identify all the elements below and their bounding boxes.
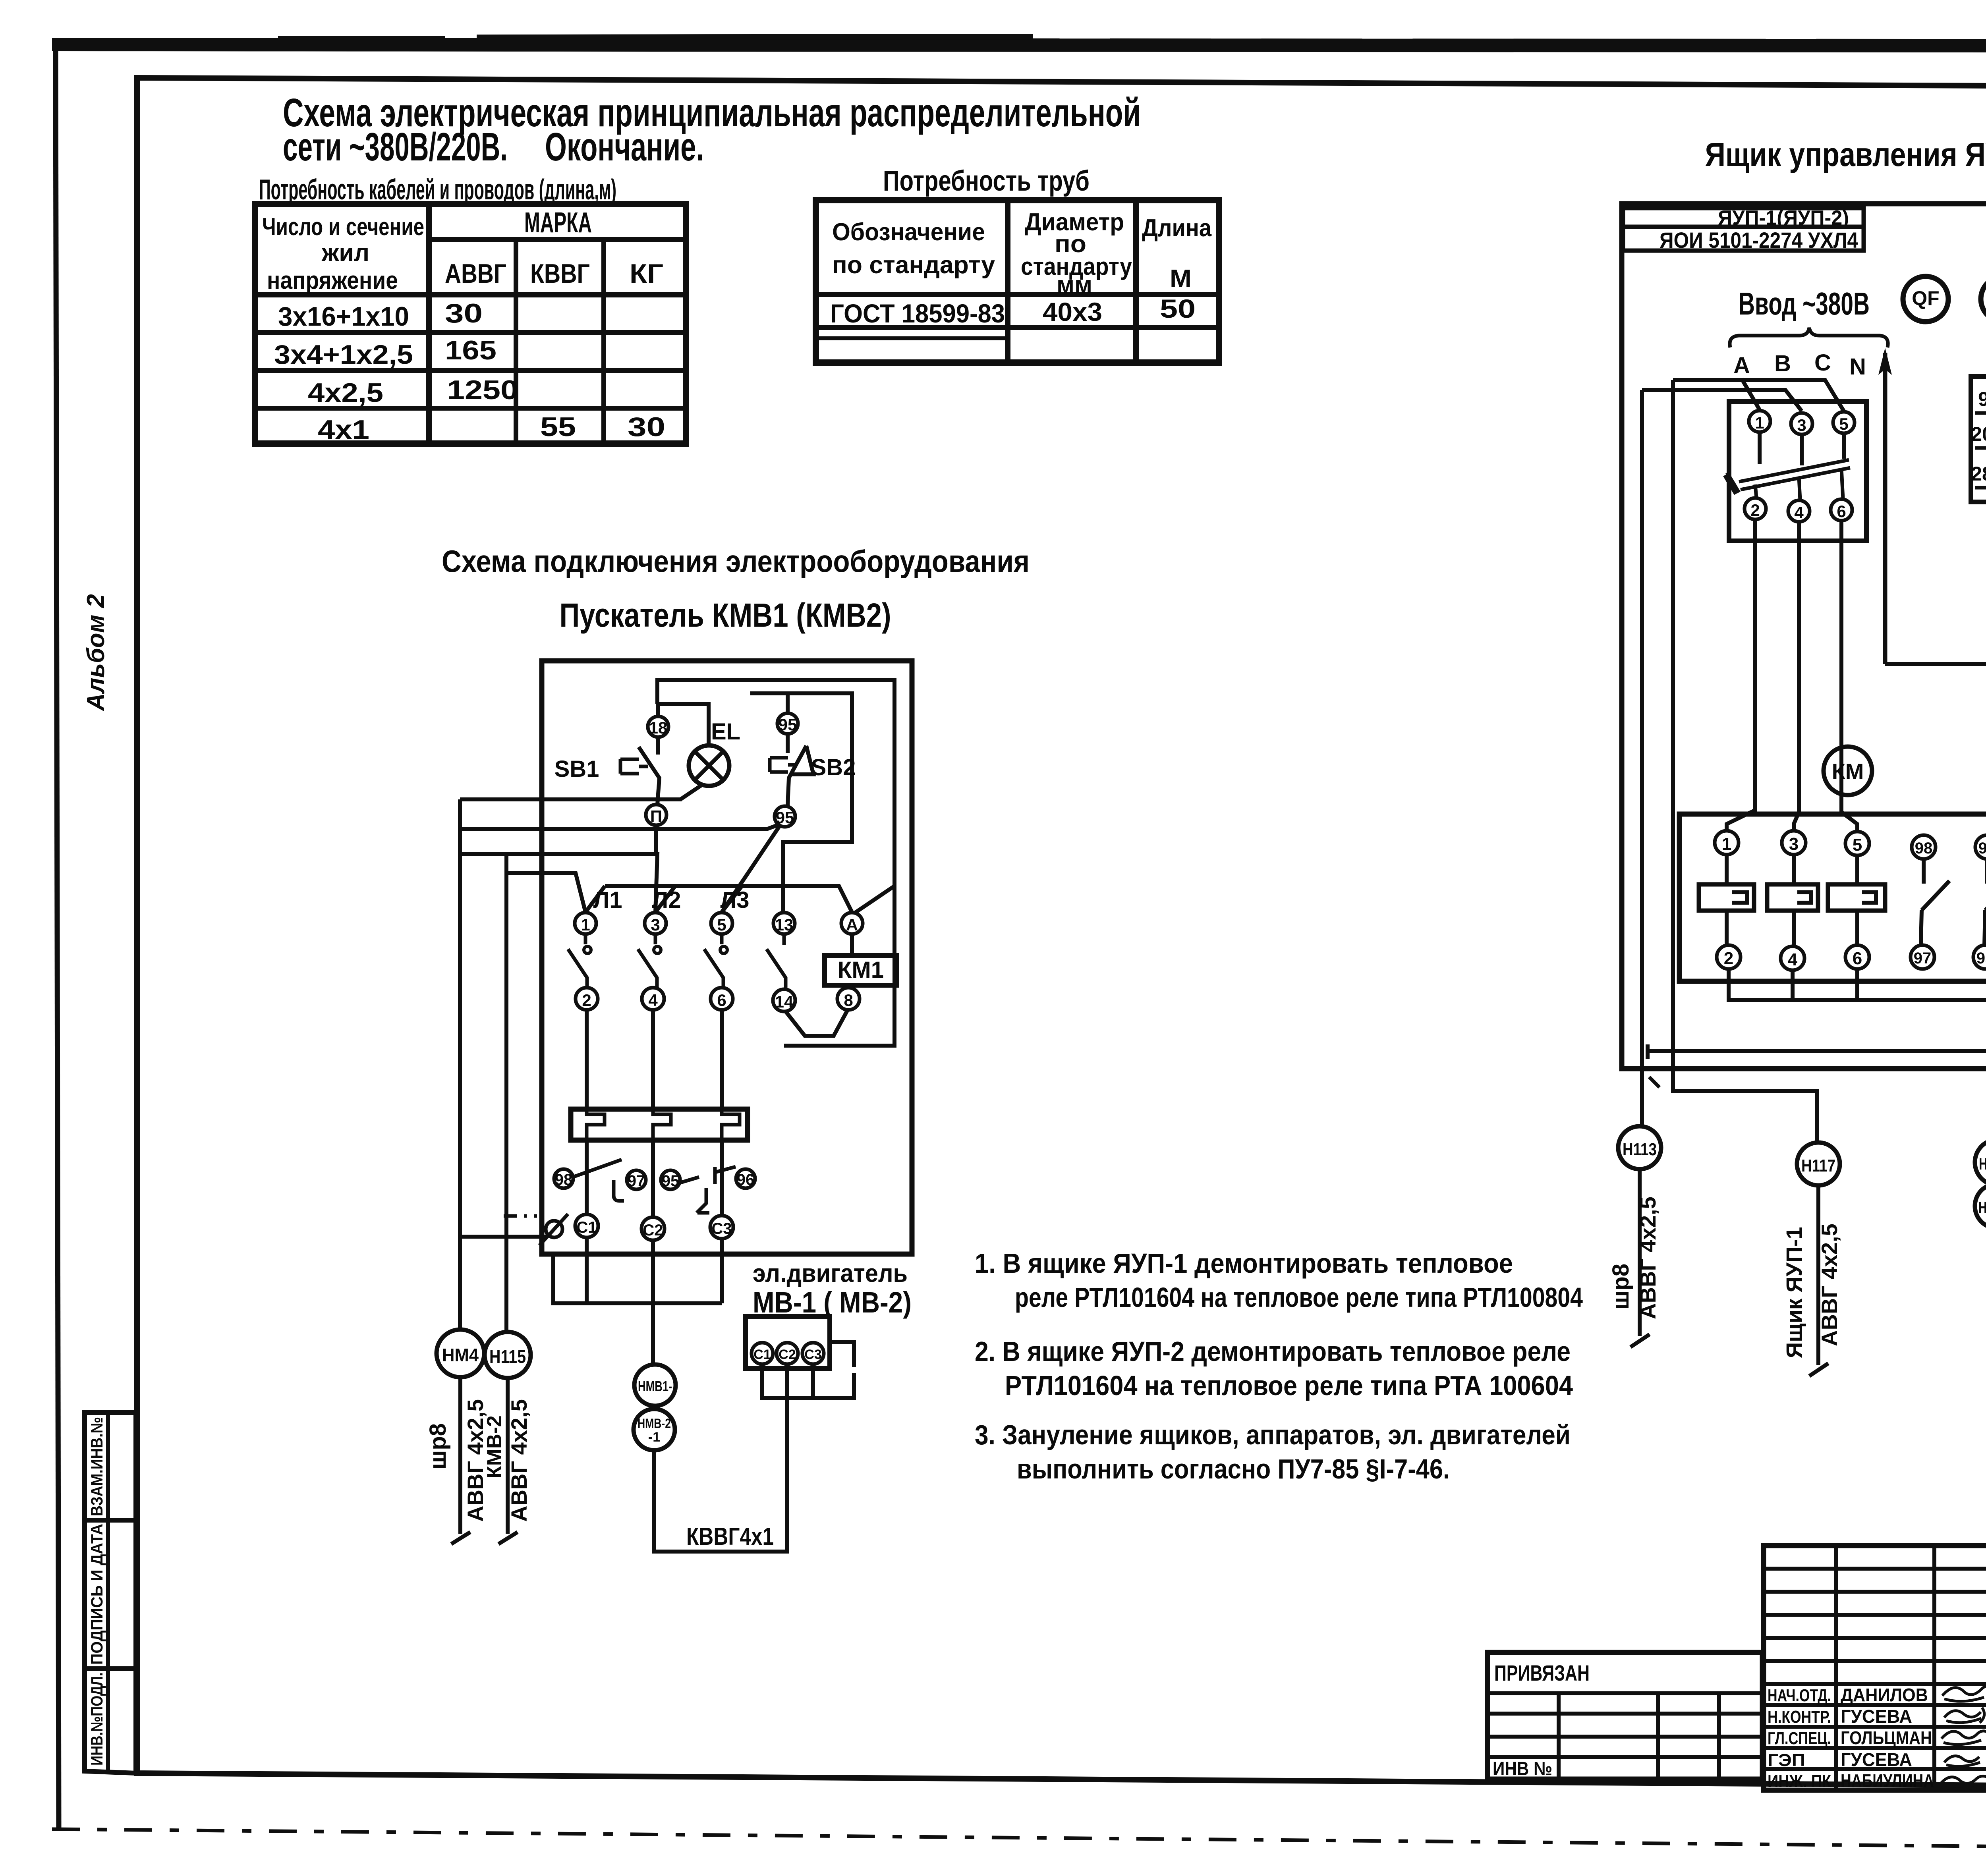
bottom bus with end ticks — [1648, 1044, 1986, 1059]
svg-text:ИНВ №: ИНВ № — [1493, 1758, 1552, 1779]
terminal circle 95 upper — [777, 713, 798, 734]
brace under Ввод — [1730, 328, 1888, 347]
svg-text:КВВГ4х1: КВВГ4х1 — [686, 1523, 774, 1550]
svg-text:95: 95 — [779, 715, 797, 734]
svg-text:20: 20 — [1971, 423, 1986, 445]
wires breaker to contactor — [1727, 519, 1755, 831]
svg-text:ГОСТ 18599-83: ГОСТ 18599-83 — [830, 299, 1005, 328]
svg-text:4: 4 — [648, 991, 658, 1009]
label box ЯУП-1(ЯУП-2) — [1623, 208, 1864, 227]
RIGHT-SCHEMATIC — [1608, 136, 1986, 1392]
svg-text:6: 6 — [1853, 949, 1862, 968]
svg-text:Пускатель КМВ1 (КМВ2): Пускатель КМВ1 (КМВ2) — [560, 596, 891, 634]
svg-text:1: 1 — [1722, 834, 1731, 854]
svg-text:6: 6 — [1837, 502, 1846, 521]
svg-text:QF: QF — [1912, 287, 1939, 309]
thermal heater elements — [587, 1111, 605, 1139]
svg-text:95: 95 — [1976, 950, 1986, 967]
svg-text:ГОЛЬЦМАН: ГОЛЬЦМАН — [1841, 1727, 1932, 1748]
svg-text:14: 14 — [775, 992, 794, 1011]
svg-text:96: 96 — [1978, 840, 1986, 857]
svg-text:1250: 1250 — [447, 375, 518, 405]
circle НМ4 — [437, 1330, 484, 1377]
main contact top terminals 1 3 5 13 A — [575, 913, 596, 934]
wire: 95 lower to pole 5 diagonal — [722, 825, 780, 912]
svg-text:1: 1 — [581, 915, 590, 934]
svg-text:Обозначение: Обозначение — [832, 218, 985, 246]
left feeder wires to НМ4 and Н115 — [460, 799, 506, 1332]
breaker box — [1729, 401, 1866, 541]
wire: inner loop C to contact 13 — [750, 693, 852, 912]
svg-text:-1: -1 — [648, 1430, 660, 1445]
svg-text:ГУСЕВА: ГУСЕВА — [1841, 1749, 1912, 1770]
svg-text:П: П — [650, 807, 662, 826]
svg-text:ПРИВЯЗАН: ПРИВЯЗАН — [1494, 1660, 1590, 1685]
svg-text:95: 95 — [662, 1172, 680, 1190]
svg-text:КМВ-2: КМВ-2 — [483, 1415, 506, 1478]
svg-text:98: 98 — [1915, 840, 1933, 857]
wire bus y2198 feeder of pole 1 — [506, 873, 585, 912]
N supply wire into box — [1885, 664, 1986, 1051]
aux contact terminals 98 97 95 96 — [554, 1169, 573, 1188]
wires below НМ4 Н115 with end ticks — [451, 1377, 470, 1544]
svg-text:КВВГ: КВВГ — [530, 259, 590, 289]
svg-text:НАБИУЛИНА: НАБИУЛИНА — [1841, 1770, 1934, 1791]
wire: collector line to A — [585, 886, 852, 912]
svg-text:18: 18 — [649, 718, 668, 737]
PIPE-TABLE — [816, 165, 1219, 363]
wire bus y2013 — [460, 797, 682, 801]
svg-text:3: 3 — [1789, 834, 1799, 854]
wires below thermal relay — [587, 1140, 722, 1217]
pipe table grid — [816, 200, 1219, 363]
svg-text:2: 2 — [582, 991, 591, 1009]
svg-text:реле РТЛ101604 на тепловое: реле РТЛ101604 на тепловое реле типа РТЛ… — [1015, 1282, 1583, 1313]
svg-text:C: C — [1814, 350, 1831, 376]
svg-text:1: 1 — [1755, 413, 1764, 432]
circle НМВ1 — [634, 1365, 676, 1406]
signatures (handwriting squiggles) — [1942, 1685, 1986, 1701]
lamp EL — [689, 745, 729, 786]
motor feed terminals С1 С2 С3 — [575, 1214, 598, 1237]
svg-text:30: 30 — [445, 298, 483, 328]
svg-text:3х16+1х10: 3х16+1х10 — [278, 301, 409, 332]
svg-text:13: 13 — [775, 915, 794, 934]
svg-text:ИНЖ. ПК: ИНЖ. ПК — [1768, 1772, 1831, 1791]
svg-text:НМВ-2: НМВ-2 — [638, 1416, 671, 1431]
svg-text:2. В ящике ЯУП-2 демонтироват: 2. В ящике ЯУП-2 демонтировать тепловое … — [975, 1336, 1571, 1367]
svg-text:3: 3 — [1797, 416, 1806, 434]
svg-text:НМВ1-: НМВ1- — [638, 1378, 672, 1394]
aux contact arms — [574, 1160, 624, 1201]
wire below Н117 with tick — [1809, 1185, 1828, 1376]
svg-text:5: 5 — [1839, 415, 1848, 433]
contactor label КМ — [1824, 747, 1872, 795]
svg-text:97: 97 — [1914, 950, 1932, 967]
svg-text:КГ: КГ — [630, 259, 663, 289]
wire: inner loop B — [657, 680, 894, 913]
starter enclosure box — [542, 661, 912, 1254]
svg-text:мм: мм — [1057, 271, 1092, 299]
stamp: left binding table — [1488, 1652, 1762, 1779]
svg-text:A: A — [1733, 353, 1750, 378]
svg-text:Число и сечение: Число и сечение — [262, 213, 424, 241]
svg-text:A: A — [846, 915, 858, 934]
svg-text:3: 3 — [651, 915, 660, 934]
cable table grid — [255, 204, 686, 444]
wires: below box loop — [553, 1237, 722, 1303]
svg-text:2: 2 — [1750, 501, 1760, 519]
svg-text:АВВГ: АВВГ — [445, 259, 506, 289]
svg-text:5: 5 — [717, 915, 726, 934]
label box ЯОИ 5101-2274 УХЛ4 — [1623, 227, 1864, 251]
svg-text:ГЛ.СПЕЦ.: ГЛ.СПЕЦ. — [1768, 1729, 1831, 1748]
svg-text:АВВГ 4х2,5: АВВГ 4х2,5 — [1817, 1224, 1842, 1346]
svg-text:4х1: 4х1 — [318, 415, 369, 445]
terminal circle 18 — [648, 716, 668, 737]
svg-text:98: 98 — [555, 1171, 573, 1189]
breaker bar — [1739, 460, 1850, 490]
svg-text:30: 30 — [628, 412, 665, 442]
svg-text:НМП-1: НМП-1 — [1979, 1154, 1986, 1173]
svg-text:Н115: Н115 — [489, 1346, 526, 1367]
circle НМВ2-1 — [634, 1409, 675, 1450]
circle Н115 — [485, 1332, 531, 1378]
circle Н117 — [1797, 1143, 1840, 1185]
motor terminal box МВ-1 — [746, 1316, 830, 1368]
svg-text:С3: С3 — [711, 1220, 732, 1237]
contactor terminals bottom 2 4 6 97 95 — [1717, 945, 1741, 969]
svg-text:КМ: КМ — [1832, 759, 1864, 784]
supply arrow — [1883, 353, 1887, 664]
wire: С2 down to НМВ circles — [651, 1240, 655, 1365]
svg-text:SB2: SB2 — [811, 755, 856, 780]
svg-text:С2: С2 — [779, 1347, 796, 1362]
svg-text:М: М — [1170, 265, 1192, 292]
svg-text:1. В ящике ЯУП-1 демонтирова: 1. В ящике ЯУП-1 демонтировать тепловое — [975, 1248, 1513, 1279]
svg-text:4х2,5: 4х2,5 — [308, 378, 383, 408]
svg-text:Н.КОНТР.: Н.КОНТР. — [1768, 1707, 1831, 1727]
aux contacts 98-97 96-95 — [1921, 859, 1949, 945]
svg-text:2: 2 — [1724, 949, 1733, 968]
breaker pole terminals top 1 3 5 — [1749, 411, 1770, 432]
svg-text:N: N — [1849, 354, 1866, 380]
svg-text:ВЗАМ.ИНВ.№: ВЗАМ.ИНВ.№ — [87, 1417, 106, 1516]
wire: loop 14 to 8 — [786, 1011, 847, 1036]
wire КВВГ4х1 run — [654, 1368, 787, 1552]
svg-text:3. Зануление ящиков, аппарат: 3. Зануление ящиков, аппаратов, эл. двиг… — [975, 1419, 1571, 1450]
main contact elements — [1727, 855, 1857, 884]
svg-text:ЯОИ 5101-2274 УХЛ4: ЯОИ 5101-2274 УХЛ4 — [1660, 228, 1858, 253]
svg-text:ГУСЕВА: ГУСЕВА — [1841, 1706, 1912, 1727]
svg-text:шр8: шр8 — [425, 1423, 451, 1469]
terminal circle П — [646, 805, 667, 825]
wire bus y2088 to 95 — [460, 824, 779, 829]
svg-text:Л2: Л2 — [652, 887, 681, 913]
contactor box — [1679, 814, 1986, 981]
svg-text:ИНВ.№ПОДЛ.: ИНВ.№ПОДЛ. — [87, 1672, 106, 1766]
svg-text:Н113: Н113 — [1623, 1140, 1657, 1159]
circle НМП-2 — [1975, 1184, 1986, 1228]
svg-text:Ящик ЯУП-1: Ящик ЯУП-1 — [1781, 1227, 1806, 1358]
connector block 9/20/28 — [1971, 376, 1986, 502]
svg-text:4: 4 — [1788, 950, 1798, 969]
contactor coil KM1 — [850, 934, 854, 955]
wires: poles down to thermal relay — [587, 1010, 722, 1109]
wire bus y2151 feeder of pole 3 — [460, 854, 657, 912]
TITLE-BLOCK — [1488, 1546, 1986, 1853]
svg-text:НМП-2: НМП-2 — [1978, 1198, 1986, 1217]
svg-text:8: 8 — [844, 991, 853, 1009]
motor box loop wires — [762, 1364, 854, 1398]
svg-text:ПОДПИСЬ И ДАТА: ПОДПИСЬ И ДАТА — [87, 1524, 106, 1665]
wire below Н113 with tick — [1631, 1169, 1650, 1347]
svg-text:МАРКА: МАРКА — [524, 207, 592, 239]
main contacts (moving arms) — [568, 934, 587, 988]
svg-text:Потребность труб: Потребность труб — [883, 165, 1090, 197]
left stamp column boxes — [85, 1413, 136, 1773]
svg-text:С1: С1 — [753, 1347, 771, 1362]
NOTES — [975, 1248, 1583, 1484]
bottom dash cut line — [52, 1829, 1986, 1851]
voltage transformer label VT — [1981, 276, 1986, 322]
svg-text:5: 5 — [1853, 835, 1862, 855]
contactor terminals top 1 3 5 98 96 — [1715, 831, 1739, 855]
svg-text:по стандарту: по стандарту — [832, 251, 995, 279]
svg-text:97: 97 — [628, 1172, 645, 1190]
svg-text:EL: EL — [711, 719, 740, 745]
svg-text:4: 4 — [1794, 503, 1804, 522]
svg-text:B: B — [1774, 351, 1791, 376]
svg-text:SB1: SB1 — [554, 756, 599, 782]
svg-text:АВВГ 4х2,5: АВВГ 4х2,5 — [1635, 1197, 1660, 1319]
svg-text:3х4+1х2,5: 3х4+1х2,5 — [274, 340, 413, 370]
svg-text:55: 55 — [540, 412, 576, 442]
svg-text:Л1: Л1 — [593, 887, 622, 913]
LEFT-SCHEMATIC — [425, 544, 1030, 1552]
wire left feeder dogleg to Н117 — [1673, 380, 1817, 1143]
phase feeder wires — [1673, 380, 1844, 411]
breaker poles — [1760, 432, 1844, 465]
circuit breaker label QF — [1903, 276, 1948, 322]
svg-text:сети ~380В/220В.: сети ~380В/220В. — [283, 125, 508, 169]
svg-text:С2: С2 — [643, 1222, 663, 1239]
svg-text:НАЧ.ОТД.: НАЧ.ОТД. — [1768, 1686, 1831, 1705]
svg-text:50: 50 — [1160, 294, 1196, 323]
svg-text:МВ-1 ( МВ-2): МВ-1 ( МВ-2) — [753, 1286, 912, 1319]
svg-text:РТЛ101604 на тепловое реле: РТЛ101604 на тепловое реле типа РТА 1006… — [1005, 1370, 1573, 1401]
bottom terminals 2 4 6 14 8 — [576, 988, 598, 1010]
svg-text:шр8: шр8 — [1608, 1264, 1634, 1310]
svg-text:Альбом 2: Альбом 2 — [82, 594, 110, 712]
svg-text:Ввод ~380В: Ввод ~380В — [1739, 286, 1870, 321]
svg-text:40х3: 40х3 — [1043, 297, 1102, 326]
svg-text:Длина: Длина — [1142, 214, 1211, 242]
circle Н113 — [1618, 1126, 1661, 1169]
circle НМП-1 — [1975, 1139, 1986, 1185]
svg-text:165: 165 — [445, 335, 496, 365]
svg-text:С3: С3 — [804, 1347, 821, 1362]
svg-text:С1: С1 — [576, 1219, 597, 1236]
wire: left bus into box — [460, 1235, 546, 1239]
svg-text:выполнить согласно ПУ7-85 §I: выполнить согласно ПУ7-85 §I-7-46. — [1017, 1453, 1450, 1484]
svg-text:ГЭП: ГЭП — [1768, 1751, 1805, 1770]
svg-text:Схема подключения электрообо: Схема подключения электрооборудования — [442, 544, 1030, 579]
cable entry symbol (circle with slash) — [546, 1221, 562, 1237]
svg-text:КМ1: КМ1 — [838, 957, 884, 983]
svg-text:НМ4: НМ4 — [442, 1345, 479, 1365]
stamp: middle signature table — [1764, 1546, 1986, 1790]
svg-text:Л3: Л3 — [721, 887, 750, 913]
svg-text:Ящик управления ЯУП-1 (ЯУП-2: Ящик управления ЯУП-1 (ЯУП-2) — [1705, 136, 1986, 173]
svg-text:Н117: Н117 — [1801, 1156, 1835, 1175]
svg-text:ДАНИЛОВ: ДАНИЛОВ — [1841, 1685, 1928, 1705]
svg-text:эл.двигатель: эл.двигатель — [753, 1259, 908, 1287]
svg-text:напряжение: напряжение — [267, 267, 398, 294]
svg-text:9: 9 — [1978, 388, 1986, 410]
wire left feeder to Н113 — [1640, 390, 1644, 1126]
wire: lamp bottom to bus — [680, 785, 702, 799]
svg-text:6: 6 — [717, 991, 726, 1009]
outer sheet border top (thick scanned line) — [52, 44, 1986, 46]
svg-text:28: 28 — [1971, 463, 1986, 485]
control box enclosure — [1622, 204, 1986, 1069]
outer sheet border left — [56, 44, 59, 1831]
TOP-TITLES — [259, 91, 1141, 206]
CABLE-TABLE — [255, 204, 686, 445]
wire: 18 to lamp EL — [658, 704, 709, 745]
breaker pole terminals bottom 2 4 6 — [1745, 498, 1766, 519]
wires contactor output — [1729, 969, 1986, 1051]
thermal relay box — [571, 1109, 748, 1140]
svg-text:Окончание.: Окончание. — [545, 125, 704, 169]
svg-text:жил: жил — [321, 239, 369, 266]
svg-text:АВВГ 4х2,5: АВВГ 4х2,5 — [506, 1399, 531, 1522]
terminal circle 95 lower — [775, 806, 795, 827]
svg-text:96: 96 — [737, 1171, 755, 1189]
